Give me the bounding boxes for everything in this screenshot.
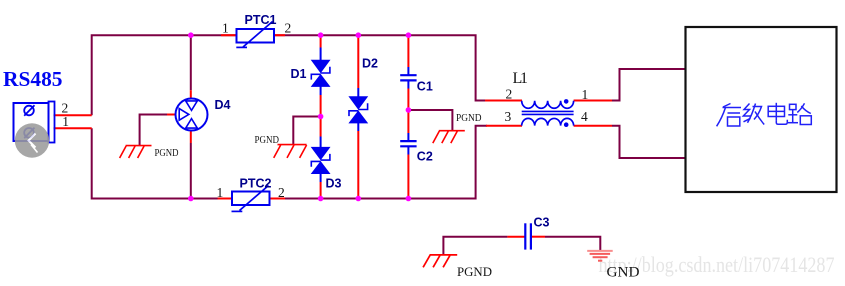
PTC2 thermistor	[232, 186, 270, 212]
svg-text:RS485: RS485	[3, 67, 63, 91]
char 级	[743, 104, 764, 125]
svg-text:C3: C3	[534, 216, 550, 230]
wire red segment right of PTC1	[273, 34, 285, 36]
wire C1 C2 branch	[407, 35, 409, 67]
TVS diode D1	[311, 60, 331, 87]
svg-text:PGND: PGND	[155, 147, 179, 159]
svg-text:4: 4	[581, 109, 588, 124]
connector screw terminal pin 2	[24, 105, 34, 116]
svg-text:PTC1: PTC1	[245, 13, 277, 27]
common mode choke L1 bottom winding	[522, 118, 574, 125]
wire top bus	[92, 35, 487, 115]
svg-text:D4: D4	[215, 98, 231, 112]
svg-text:1: 1	[222, 21, 229, 36]
svg-text:2: 2	[278, 185, 285, 200]
junction dot C1 C2 midpoint	[406, 107, 412, 113]
capacitor C3	[525, 223, 531, 249]
wire red C3 right pin	[532, 236, 545, 238]
wire red pin stub RS485 pin2	[54, 114, 92, 116]
node junction to middle PGND	[293, 117, 320, 145]
PGND earth symbol at D4	[120, 146, 152, 158]
svg-text:D3: D3	[326, 177, 342, 191]
wire D1 D3 branch	[320, 35, 322, 47]
svg-text:PGND: PGND	[456, 112, 482, 124]
junction dot D1 D3 midpoint	[318, 114, 324, 120]
connector J RS485 body	[14, 102, 55, 143]
connector screw terminal pin 1	[24, 128, 34, 139]
char 电	[768, 103, 787, 125]
common mode choke L1 top winding	[522, 101, 574, 109]
svg-text:GND: GND	[607, 264, 640, 280]
svg-text:PTC2: PTC2	[240, 177, 272, 191]
svg-text:C1: C1	[417, 80, 433, 94]
block box back-end circuit	[686, 27, 837, 192]
PGND earth symbol right	[433, 131, 465, 143]
wire red segment left of PTC2	[218, 198, 233, 200]
PGND earth symbol middle	[274, 145, 307, 158]
svg-text:D1: D1	[291, 67, 307, 81]
svg-text:1: 1	[582, 87, 589, 102]
svg-text:3: 3	[505, 109, 512, 124]
wire red C3 left pin	[507, 236, 524, 238]
svg-text:PGND: PGND	[457, 265, 492, 279]
svg-text:C2: C2	[417, 150, 433, 164]
L1 bottom winding dot	[564, 122, 569, 127]
wire C3 to GND	[545, 237, 600, 251]
char 路	[788, 103, 811, 124]
wire C1C2 midpoint to right PGND	[408, 110, 452, 131]
svg-text:D2: D2	[362, 57, 378, 71]
wire L1 pin2 red	[485, 100, 522, 102]
wire D4 left to PGND	[140, 115, 167, 146]
svg-text:PGND: PGND	[255, 134, 280, 146]
svg-text:2: 2	[506, 87, 513, 102]
wire red pin stub RS485 pin1	[54, 127, 92, 129]
L1 top winding dot	[564, 99, 569, 104]
wire D4 bottom branch	[190, 131, 192, 143]
L1 core lines	[522, 111, 574, 114]
TVS diode D3	[311, 147, 331, 174]
wire red segment left of PTC1	[221, 34, 237, 36]
PGND earth symbol bottom	[423, 255, 457, 267]
wire red segment right of PTC2	[269, 198, 285, 200]
wire L1 pin1 to box	[574, 100, 612, 102]
junction dots on bottom bus	[188, 196, 411, 202]
char 后	[717, 104, 741, 127]
watermark logo circle	[15, 123, 49, 157]
svg-text:2: 2	[285, 21, 292, 36]
TVS diode D2	[348, 96, 368, 123]
PTC1 thermistor	[236, 22, 274, 48]
wire D2 branch	[357, 35, 359, 88]
text 后级电路 drawn strokes	[717, 103, 812, 127]
capacitor C2	[400, 141, 416, 146]
svg-text:1: 1	[62, 114, 69, 129]
wire D4 top branch	[190, 35, 192, 90]
svg-text:1: 1	[217, 185, 224, 200]
wire L1 pin3 red	[486, 125, 522, 127]
junction dots on top bus	[188, 32, 411, 38]
gas discharge tube D4	[176, 99, 208, 131]
capacitor C1	[400, 75, 416, 80]
wire bottom bus	[92, 126, 487, 199]
svg-text:L1: L1	[513, 70, 529, 87]
wire bottom PGND to C3	[443, 237, 507, 255]
wire L1 pin4 to box	[574, 125, 612, 127]
GND power ground symbol	[587, 251, 613, 261]
